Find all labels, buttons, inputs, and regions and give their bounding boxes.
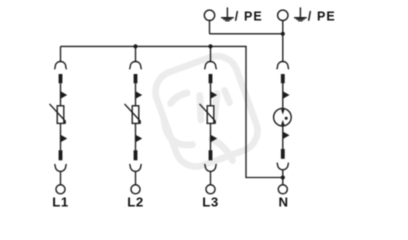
contact arc L1 top: [55, 61, 67, 69]
varistor L3 body: [207, 106, 214, 124]
svg-text:/ PE: / PE: [235, 10, 263, 24]
spark gap F4 gas dot: [285, 117, 288, 120]
wire PE link: [210, 33, 283, 35]
wire N spark gap to lower blade: [282, 127, 284, 149]
wire L2 to terminal: [135, 171, 137, 184]
wire L2 blade to varistor: [135, 83, 137, 106]
wire PE2 stem: [282, 21, 284, 34]
wire L3 varistor to lower blade: [210, 123, 212, 150]
contact blade L1 bottom: [59, 150, 63, 160]
disconnect arrow N upper: [283, 91, 289, 98]
disconnect arrow L2 lower: [136, 135, 142, 142]
junction dot bus/L2: [133, 44, 137, 48]
contact arc L3 top: [205, 61, 217, 69]
wire L1 to terminal: [60, 171, 62, 184]
varistor L2 diagonal stroke: [125, 104, 141, 124]
wire N column drop from PE link: [282, 34, 284, 63]
contact blade N bottom: [281, 149, 285, 159]
wire L2 drop from bus: [135, 46, 137, 62]
wire N to junction: [282, 170, 284, 185]
wire L1 varistor to lower blade: [60, 123, 62, 150]
contact blade L2 bottom: [134, 150, 138, 160]
disconnect arrow L1 lower: [61, 135, 67, 142]
wire L2 varistor to lower blade: [135, 123, 137, 150]
disconnect arrow L2 upper: [136, 91, 142, 98]
spark gap F4 bottom electrode: [282, 124, 284, 127]
varistor L1 body: [57, 106, 64, 124]
ground symbol at x=227.4: [221, 7, 234, 21]
junction dot bus/L3: [208, 44, 212, 48]
wire L1 drop from bus: [60, 46, 62, 62]
watermark distributor logo hand: [164, 91, 233, 161]
wire main bus from L1 to N link: [61, 46, 283, 177]
contact arc N top: [277, 61, 289, 69]
terminal N: [278, 185, 287, 194]
contact blade N top: [281, 74, 285, 83]
wire N blade to spark gap: [282, 83, 284, 109]
disconnect arrow L3 lower: [211, 135, 217, 142]
terminal L1: [56, 185, 65, 194]
contact blade L2 top: [134, 74, 138, 83]
varistor L1 diagonal stroke: [50, 104, 66, 124]
terminal PE at x=282.8: [278, 10, 288, 20]
svg-text:/ PE: / PE: [308, 10, 336, 24]
wire PE1 stem: [209, 21, 211, 34]
wire L3 drop from bus: [210, 46, 212, 62]
terminal PE at x=209.5: [204, 10, 214, 20]
contact arc L2 bottom: [130, 164, 142, 171]
svg-text:L2: L2: [127, 194, 143, 209]
contact arc L2 top: [130, 61, 142, 69]
contact arc L3 bottom: [205, 164, 217, 171]
disconnect arrow L1 upper: [61, 91, 67, 98]
junction dot N bus link: [281, 175, 285, 179]
contact blade L1 top: [59, 74, 63, 83]
disconnect arrow L3 upper: [211, 91, 217, 98]
svg-text:L3: L3: [202, 194, 218, 209]
junction dot PE link / N column: [281, 32, 285, 36]
wire L3 to terminal: [210, 171, 212, 184]
svg-text:L1: L1: [52, 194, 68, 209]
contact blade L3 top: [209, 74, 213, 83]
disconnect arrow N lower: [283, 132, 289, 139]
wire L3 blade to varistor: [210, 83, 212, 106]
contact blade L3 bottom: [209, 150, 213, 160]
watermark distributor logo frame: [150, 50, 264, 172]
contact arc L1 bottom: [55, 164, 67, 171]
wire L1 blade to varistor: [60, 83, 62, 106]
terminal L2: [131, 185, 140, 194]
spark gap F4 body: [274, 108, 292, 126]
contact arc N bottom: [277, 163, 289, 170]
ground symbol at x=300.4: [294, 7, 307, 21]
spark gap F4 top electrode: [282, 108, 284, 111]
varistor L2 body: [132, 106, 139, 124]
varistor L3 diagonal stroke: [200, 104, 216, 124]
svg-text:N: N: [278, 194, 288, 209]
terminal L3: [206, 185, 215, 194]
